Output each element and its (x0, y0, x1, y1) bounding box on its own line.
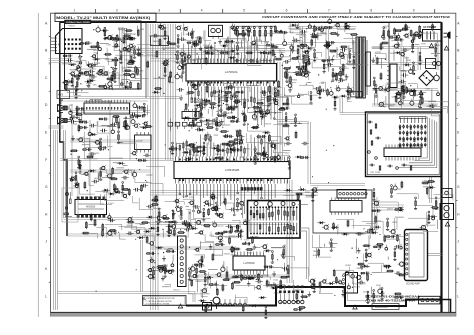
svg-text:ZD224: ZD224 (274, 292, 281, 294)
U2 pin pad rows (179, 159, 279, 182)
capacitor C335 (91, 75, 93, 79)
wire segment W19 (127, 52, 285, 54)
wire (314, 26, 322, 35)
svg-text:4: 4 (201, 8, 203, 12)
ground (219, 39, 221, 42)
title box (55, 13, 156, 21)
resistor R510 (228, 141, 236, 143)
wire (101, 124, 113, 126)
resistor R601 (302, 56, 310, 58)
resistor R692 (299, 157, 309, 159)
ground (372, 57, 374, 60)
grid tick top 9 (434, 9, 436, 13)
wire (381, 58, 383, 69)
resistor R559 (159, 38, 161, 46)
resistor R363 (65, 83, 67, 91)
resistor R839 (268, 284, 278, 286)
junction node (352, 248, 353, 249)
resistor R468 (216, 118, 218, 120)
transistor Q615 (305, 51, 308, 54)
resistor R447 (206, 85, 208, 93)
ground (337, 31, 339, 34)
wire (328, 241, 330, 244)
ground (242, 110, 244, 113)
wire (221, 99, 229, 101)
wire segment W39 (64, 219, 151, 221)
diode D391 (253, 126, 256, 129)
diode D454 (184, 151, 187, 154)
resistor R524 (277, 89, 279, 97)
resistor R351 (229, 237, 231, 245)
capacitor C384 (111, 130, 114, 133)
capacitor C706 (71, 115, 73, 119)
junction node (111, 67, 112, 68)
junction node (136, 158, 137, 159)
wire (222, 39, 242, 48)
wire (317, 32, 319, 40)
wire (252, 36, 271, 46)
wire (412, 89, 414, 100)
junction node (197, 53, 198, 54)
junction node (116, 41, 117, 42)
wire (195, 255, 205, 259)
resistor R386 (319, 281, 321, 289)
resistor R853 (287, 265, 289, 267)
wire (205, 234, 214, 241)
wire (182, 69, 184, 82)
ground (87, 61, 89, 64)
resistor R734 (383, 27, 385, 29)
resistor R699 (342, 68, 344, 76)
resistor R419 (272, 49, 274, 57)
diode D307 (125, 86, 128, 89)
capacitor C447 (192, 84, 195, 87)
wire (419, 33, 438, 43)
diode D699 (333, 226, 336, 229)
transistor Q825 (214, 207, 218, 211)
wire segment W73 (396, 218, 398, 230)
wire (185, 60, 201, 70)
junction (165, 144, 166, 145)
resistor R426 (243, 113, 245, 115)
wire (299, 85, 313, 90)
resistor R538 (75, 172, 77, 174)
ground (221, 119, 223, 122)
wire (426, 106, 447, 113)
wire (170, 119, 172, 132)
wire (79, 183, 95, 194)
junction node (80, 83, 81, 84)
wire (431, 89, 433, 102)
junction node (187, 145, 188, 146)
capacitor C323 (215, 207, 217, 211)
resistor R853 (427, 181, 435, 183)
junction node (256, 279, 257, 280)
resistor R461 (203, 142, 205, 144)
diode D475 (119, 162, 122, 165)
resistor R356 (71, 74, 73, 76)
wire segment W102 (70, 139, 150, 141)
wire (81, 57, 96, 69)
junction (96, 291, 97, 292)
wire (172, 255, 174, 262)
diode D447 (197, 104, 200, 107)
wire (123, 28, 132, 33)
diode D482 (116, 191, 119, 194)
wire (344, 22, 346, 32)
junction node (177, 206, 178, 207)
resistor R839 (231, 226, 233, 234)
fuse F601 (415, 32, 422, 35)
capacitor C839 (303, 142, 305, 146)
wire (69, 104, 73, 106)
wire (250, 135, 252, 144)
wire (312, 288, 320, 293)
capacitor C804 (393, 186, 397, 190)
resistor R400 (333, 269, 335, 277)
resistor R489 (195, 108, 197, 110)
resistor R323 (373, 189, 375, 191)
ground (224, 93, 226, 96)
junction (163, 49, 164, 50)
wire (97, 173, 99, 182)
resistor R349 (78, 72, 88, 74)
wire (255, 247, 261, 249)
capacitor C636 (418, 36, 421, 39)
wire (263, 33, 284, 43)
wire (87, 138, 90, 140)
resistor R566 (144, 126, 152, 128)
transistor Q741 (196, 248, 199, 251)
wire (172, 210, 174, 215)
wire segment W23 (60, 96, 180, 98)
wire (225, 236, 238, 238)
wire (123, 66, 134, 71)
resistor R356 (123, 38, 133, 40)
wire (204, 31, 211, 41)
junction node (180, 229, 181, 230)
transistor Q727 (193, 274, 196, 277)
wire (235, 285, 254, 290)
diode D741 (146, 230, 149, 233)
junction node (170, 151, 171, 152)
wire (196, 279, 198, 292)
resistor R201 (237, 27, 239, 42)
capacitor C433 (188, 32, 190, 36)
wire segment W115 (195, 276, 290, 278)
capacitor C370 (112, 123, 114, 127)
resistor R363 (130, 116, 140, 118)
svg-text:G: G (45, 185, 48, 189)
transistor Q379 (312, 188, 316, 192)
resistor R489 (256, 136, 266, 138)
wire (130, 43, 135, 56)
wire (260, 60, 272, 62)
label box LB1 (57, 91, 70, 99)
resistor R671 (305, 62, 307, 64)
junction (135, 239, 136, 240)
capacitor C629 (180, 37, 182, 41)
diode D489 (92, 133, 95, 136)
resistor R510 (233, 142, 243, 144)
wire (276, 44, 293, 54)
capacitor C482 (175, 75, 179, 79)
wire (209, 272, 227, 286)
resistor R440 (225, 41, 235, 43)
wire (283, 257, 294, 261)
capacitor C398 (235, 59, 237, 63)
wire segment W88 (372, 62, 438, 64)
capacitor C386 (396, 271, 398, 275)
resistor R498 (216, 288, 218, 296)
resistor R713 (403, 86, 405, 88)
resistor R323 (201, 255, 203, 263)
capacitor C783 (400, 246, 403, 249)
wire segment W2 (121, 28, 123, 88)
ground (292, 47, 294, 50)
ground (173, 210, 175, 213)
wire segment W22 (150, 60, 186, 62)
power section divider (388, 22, 390, 109)
capacitor C741 (244, 221, 247, 224)
capacitor C755 (316, 27, 318, 31)
wire (224, 82, 235, 84)
capacitor C671 (93, 180, 95, 184)
wire (408, 84, 417, 89)
grid tick right (456, 199, 458, 201)
resistor R818 (283, 246, 285, 248)
line filter FL601 (423, 30, 442, 42)
resistor R657 (298, 68, 308, 70)
capacitor C552 (229, 106, 231, 110)
resistor R587 (79, 161, 81, 163)
wire segment W92 (372, 103, 438, 105)
wire (137, 105, 139, 119)
capacitor C440 (197, 36, 199, 40)
junction (306, 84, 307, 85)
capacitor C377 (102, 129, 104, 133)
junction node (245, 242, 246, 243)
resistor R405 (181, 55, 183, 57)
wire segment W42 (58, 291, 196, 293)
resistor R456 (94, 219, 96, 227)
junction node (282, 65, 283, 66)
resistor R538 (214, 157, 224, 159)
junction node (70, 151, 71, 152)
board border right (440, 22, 442, 313)
resistor R349 (115, 57, 117, 59)
resistor R776 (168, 221, 178, 223)
wire segment W7 (152, 24, 154, 310)
wire (401, 70, 405, 78)
grid tick top 4 (222, 9, 224, 13)
wire (368, 263, 384, 266)
wire segment W104 (70, 169, 150, 171)
resistor R393 (384, 235, 386, 243)
resistor R358 (367, 274, 369, 282)
crt drive ladder (399, 124, 426, 147)
capacitor C349 (86, 41, 88, 45)
wire segment W117 (229, 26, 231, 60)
junction (223, 135, 224, 136)
resistor R776 (177, 232, 185, 234)
transistor Q545 (108, 174, 112, 178)
wire (306, 195, 317, 197)
wire segment W78 (288, 26, 356, 28)
wire segment W69 (372, 209, 404, 211)
capacitor C433 (229, 145, 231, 147)
resistor R384 (237, 42, 239, 44)
ground (192, 28, 194, 31)
junction node (333, 55, 334, 56)
transistor Q351 (128, 218, 132, 222)
wire (372, 272, 382, 274)
wire (79, 72, 83, 74)
wire segment W113 (150, 248, 233, 250)
resistor R203 (248, 27, 250, 42)
capacitor C692 (90, 152, 92, 156)
wire segment W66 (342, 98, 344, 113)
wire (415, 44, 420, 46)
wire (428, 191, 442, 198)
wire (107, 48, 117, 62)
wire (331, 242, 338, 244)
transistor Q601 (132, 151, 135, 154)
svg-text:ZD591: ZD591 (363, 292, 370, 294)
junction node (432, 26, 433, 27)
capacitor C650 (140, 106, 142, 110)
resistor R601 (113, 183, 115, 191)
junction (228, 110, 229, 111)
junction (371, 274, 372, 275)
resistor R818 (380, 43, 382, 51)
transistor Q608 (102, 166, 105, 169)
wire (114, 38, 123, 51)
resistor R377 (184, 53, 186, 55)
resistor R342 (128, 60, 136, 62)
resistor R342 (137, 29, 139, 37)
resistor R804 (386, 270, 394, 272)
diode D734 (430, 186, 433, 189)
wire (299, 63, 301, 71)
capacitor C510 (231, 106, 233, 110)
wire (123, 171, 132, 176)
wire (195, 233, 201, 235)
capacitor C629 (397, 35, 400, 38)
resistor R496 (224, 91, 232, 93)
wire segment W58 (311, 183, 366, 185)
resistor R643 (116, 116, 118, 124)
resistor R888 (373, 290, 375, 292)
wire (415, 206, 433, 218)
resistor R762 (165, 270, 175, 272)
transistor Q566 (123, 194, 126, 197)
junction node (204, 205, 205, 206)
resistor R302 (224, 198, 226, 206)
wire (360, 263, 362, 268)
junction node (79, 55, 80, 56)
junction (434, 181, 435, 182)
small box P5b (351, 92, 363, 97)
ground (94, 62, 96, 65)
capacitor C440 (217, 122, 221, 126)
wire segment W83 (302, 26, 304, 60)
resistor R412 (254, 152, 256, 154)
wire (205, 41, 226, 51)
wire (329, 56, 331, 65)
resistor R349 (130, 55, 132, 63)
resistor R580 (122, 182, 124, 184)
transistor Q414 (199, 260, 203, 264)
resistor R309 (231, 282, 233, 290)
wire segment W118 (249, 45, 251, 62)
capacitor C405 (231, 26, 234, 29)
svg-text:1. NOTES: ALL RESISTORS 1/4W: 1. NOTES: ALL RESISTORS 1/4W (146, 297, 175, 300)
resistor R307 (97, 41, 99, 49)
wire (299, 93, 308, 95)
resistor R573 (187, 124, 197, 126)
capacitor C685 (238, 233, 241, 236)
resistor R314 (112, 68, 114, 70)
capacitor C328 (78, 72, 80, 76)
wire (388, 35, 397, 44)
junction (375, 55, 376, 56)
wire (201, 122, 212, 127)
capacitor C503 (286, 142, 288, 146)
resistor R491 (242, 304, 244, 312)
wire segment W51 (277, 62, 279, 160)
photocoupler housing (366, 52, 371, 86)
wire (418, 35, 420, 39)
wire (303, 34, 305, 43)
resistor R321 (79, 42, 89, 44)
wire (362, 221, 384, 234)
wire (368, 235, 370, 249)
resistor R580 (285, 71, 287, 79)
wire segment W63 (340, 112, 366, 114)
wire (185, 148, 198, 150)
wire (95, 191, 106, 202)
ground (268, 103, 270, 106)
resistor R601 (78, 127, 88, 129)
wire (182, 48, 189, 56)
transistor Q321 (123, 47, 126, 50)
resistor R433 (278, 32, 288, 34)
ground (346, 74, 348, 77)
wire segment W109 (129, 100, 131, 160)
junction node (274, 26, 275, 27)
resistor R545 (227, 117, 237, 119)
junction (326, 109, 327, 110)
resistor R664 (346, 90, 354, 92)
capacitor C615 (153, 34, 155, 38)
wire segment W17 (127, 48, 285, 50)
transistor Q328 (84, 71, 88, 75)
wire (208, 268, 218, 270)
wire segment W48 (150, 190, 318, 192)
resistor R629 (350, 34, 358, 36)
transistor Q461 (286, 137, 289, 140)
wire (154, 55, 157, 57)
junction (333, 145, 334, 146)
transistor Q309 (324, 225, 328, 229)
wire segment W93 (372, 105, 438, 107)
wire (207, 109, 209, 114)
resistor R337 (240, 274, 242, 282)
ground (257, 58, 259, 61)
wire (397, 194, 419, 199)
wire (336, 270, 354, 283)
